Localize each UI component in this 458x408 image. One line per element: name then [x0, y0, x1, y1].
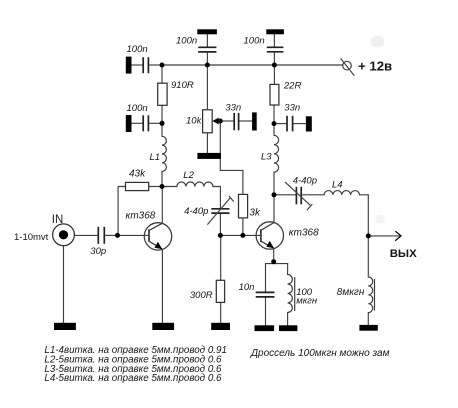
- svg-text:IN: IN: [52, 214, 64, 226]
- transistor Q1 emitter arrowhead: [155, 242, 163, 249]
- supply connector circle +12v: [341, 58, 355, 75]
- wire node H to C6: [274, 123, 287, 125]
- wire trimmer C9 to node D: [219, 214, 221, 236]
- wire Q1 emitter down to ground: [161, 250, 163, 323]
- wire node A down to R 910R: [161, 65, 163, 83]
- trimmer capacitor C9 arrow: [207, 196, 233, 225]
- resistor 22R: [270, 84, 279, 105]
- wire C3 plate to node B: [149, 122, 162, 124]
- wire IN jack down to ground: [63, 246, 65, 323]
- wire Q1 collector up to node C: [161, 187, 163, 224]
- wire 300R to ground: [220, 302, 222, 322]
- wire R 910R to node B: [161, 105, 163, 123]
- top bar C4: [266, 29, 284, 34]
- choke 100mkgn: [288, 275, 293, 313]
- node L junction: [115, 233, 120, 238]
- svg-text:30p: 30p: [90, 246, 106, 257]
- transistor Q2 emitter arrowhead: [266, 241, 274, 248]
- wire node I to trimmer C10: [274, 194, 296, 196]
- connector IN jack: [53, 224, 75, 246]
- node F junction: [205, 63, 210, 68]
- svg-text:3k: 3k: [249, 208, 261, 219]
- wire pot wiper stub: [220, 120, 233, 122]
- ground 8mkgn: [359, 325, 377, 331]
- capacitor C8 10n: [256, 292, 275, 297]
- svg-text:100n: 100n: [244, 35, 265, 46]
- wire C1 terminal to plate: [132, 64, 143, 66]
- terminal bar C6: [306, 116, 312, 131]
- output arrowhead: [395, 231, 401, 241]
- svg-text:+ 12в: + 12в: [358, 58, 392, 73]
- wire C2 plate to node F: [206, 52, 208, 65]
- top bar C2: [197, 29, 217, 34]
- wire node H to L3: [273, 124, 275, 136]
- wire node B to L1: [161, 123, 163, 136]
- wire top bar to C2 plate: [206, 34, 208, 46]
- svg-text:ВЫХ: ВЫХ: [390, 248, 417, 260]
- svg-text:300R: 300R: [190, 290, 213, 301]
- terminal bar C5: [252, 112, 257, 130]
- wire Q2 emitter to node K: [273, 249, 275, 264]
- node wiper junction: [218, 119, 223, 124]
- wire pot wiper down bend to 3k: [220, 121, 243, 194]
- svg-text:кт368: кт368: [289, 228, 319, 239]
- node I junction: [272, 192, 277, 197]
- inductor L4: [324, 191, 359, 195]
- svg-text:кт368: кт368: [126, 211, 156, 222]
- wire L2 to trimmer C9: [213, 187, 221, 209]
- wire node D to node E base row: [220, 234, 242, 236]
- svg-text:1-10mvt: 1-10mvt: [14, 232, 49, 243]
- svg-text:910R: 910R: [171, 80, 194, 91]
- capacitor C4 100n: [267, 47, 284, 52]
- transistor Q1 kt368: [144, 223, 171, 250]
- transistor Q2 kt368: [256, 222, 283, 249]
- svg-text:L4-5витка. на оправке 5мм.пров: L4-5витка. на оправке 5мм.провод 0.6: [44, 373, 222, 384]
- svg-text:33n: 33n: [284, 102, 300, 113]
- wire C3 terminal to plate: [132, 122, 143, 124]
- wire node F down to pot 10k: [206, 65, 208, 110]
- node K junction: [271, 259, 276, 264]
- svg-text:10n: 10n: [239, 282, 255, 293]
- node J junction: [366, 233, 371, 238]
- wire node L to Q1 base: [118, 234, 150, 236]
- ground 300R: [211, 323, 230, 330]
- wire emitter row right down to choke 100mkgn: [287, 264, 289, 275]
- wire top bar to C4 plate: [273, 34, 275, 46]
- svg-text:L1: L1: [150, 152, 161, 163]
- wire 43k left bend: [118, 187, 125, 236]
- wire 43k to node C: [149, 186, 162, 188]
- trimmer capacitor C10 arrow: [285, 182, 312, 210]
- capacitor C6 33n: [287, 116, 293, 132]
- wire C1 plate to node A: [149, 64, 162, 66]
- smudge artifact top: [371, 36, 385, 48]
- trimmer capacitor C10 4-40p plates: [296, 187, 301, 205]
- terminal bar input C3: [126, 115, 132, 132]
- svg-text:10k: 10k: [186, 116, 203, 127]
- svg-text:4-40p: 4-40p: [293, 176, 317, 187]
- svg-text:мкгн: мкгн: [296, 296, 318, 307]
- smudge artifact mid: [375, 215, 385, 224]
- svg-text:100n: 100n: [127, 103, 148, 114]
- inductor L1: [162, 136, 166, 171]
- choke 8mkgn: [368, 277, 372, 313]
- capacitor C3 100n: [143, 115, 148, 131]
- capacitor C1 100n: [143, 57, 148, 73]
- ground 10n: [255, 325, 275, 331]
- node B junction: [160, 121, 165, 126]
- svg-text:43k: 43k: [129, 169, 146, 180]
- resistor 43k: [126, 182, 149, 190]
- resistor 300R: [216, 280, 224, 302]
- ground Q1 emitter: [152, 323, 174, 330]
- wire emitter row left down to 10n: [265, 264, 267, 293]
- svg-text:33n: 33n: [225, 102, 241, 113]
- node E junction: [240, 233, 245, 238]
- capacitor C7 30p: [98, 227, 104, 244]
- wire L3 to node I: [273, 172, 275, 195]
- wire node I down to Q2 collector: [273, 195, 275, 223]
- svg-text:100n: 100n: [176, 35, 197, 46]
- wire node J down to choke 8mkgn: [367, 236, 369, 277]
- inductor L2: [177, 182, 213, 186]
- choke 100mkgn core line: [294, 277, 296, 311]
- node G junction: [272, 63, 277, 68]
- wire node E to Q2 base: [243, 234, 261, 236]
- wire choke 100mkgn to ground: [287, 313, 289, 326]
- wire supply rail +12v: [162, 64, 343, 66]
- wire C5 to terminal: [239, 120, 252, 122]
- svg-text:L2: L2: [183, 170, 194, 181]
- wire emitter row: [266, 263, 288, 265]
- inductor L3: [274, 135, 279, 172]
- wire pot 10k to ground: [206, 133, 208, 153]
- wire 3k to node E: [242, 218, 244, 235]
- svg-text:100n: 100n: [127, 44, 148, 55]
- svg-text:Дроссель 100мкгн можно зам: Дроссель 100мкгн можно зам: [250, 348, 390, 359]
- wire L1 to node C: [161, 172, 163, 187]
- wire choke 8mkgn to ground: [367, 313, 369, 325]
- wire C6 to terminal: [293, 123, 306, 125]
- resistor 3k: [239, 194, 248, 218]
- ground IN: [54, 323, 76, 330]
- svg-text:L4: L4: [332, 179, 343, 190]
- node H junction: [272, 121, 277, 126]
- wire node G down to 22R: [273, 65, 275, 84]
- resistor 910R: [158, 83, 167, 105]
- svg-text:22R: 22R: [283, 80, 302, 91]
- node D junction: [218, 233, 223, 238]
- capacitor C2 100n: [198, 47, 216, 52]
- wire trimmer C10 to L4: [302, 194, 325, 196]
- ground 100mkgn: [279, 325, 297, 331]
- wire L4 right bend down to node J: [360, 195, 369, 236]
- wire output arrow shaft: [368, 235, 400, 237]
- wire 22R to node H: [273, 105, 275, 124]
- potentiometer 10k wiper arrow: [212, 118, 218, 125]
- wire 10n to ground: [265, 297, 267, 325]
- svg-text:4-40p: 4-40p: [184, 206, 208, 217]
- trimmer capacitor C9 4-40p plates: [211, 209, 229, 213]
- capacitor C5 33n: [234, 113, 238, 130]
- svg-text:8мкгн: 8мкгн: [337, 287, 365, 298]
- node A junction: [160, 63, 165, 68]
- node C junction: [160, 184, 165, 189]
- choke 8mkgn core line: [374, 279, 376, 311]
- wire IN jack to C7: [74, 234, 97, 236]
- wire C7 to node L: [105, 234, 118, 236]
- svg-text:L3: L3: [261, 151, 272, 162]
- potentiometer 10k body: [203, 110, 213, 133]
- ground pot 10k: [197, 153, 221, 159]
- terminal bar input C1: [126, 57, 132, 74]
- wire node D down to 300R: [220, 235, 222, 280]
- wire C4 plate to node G: [273, 52, 275, 65]
- wire node C to L2: [162, 186, 177, 188]
